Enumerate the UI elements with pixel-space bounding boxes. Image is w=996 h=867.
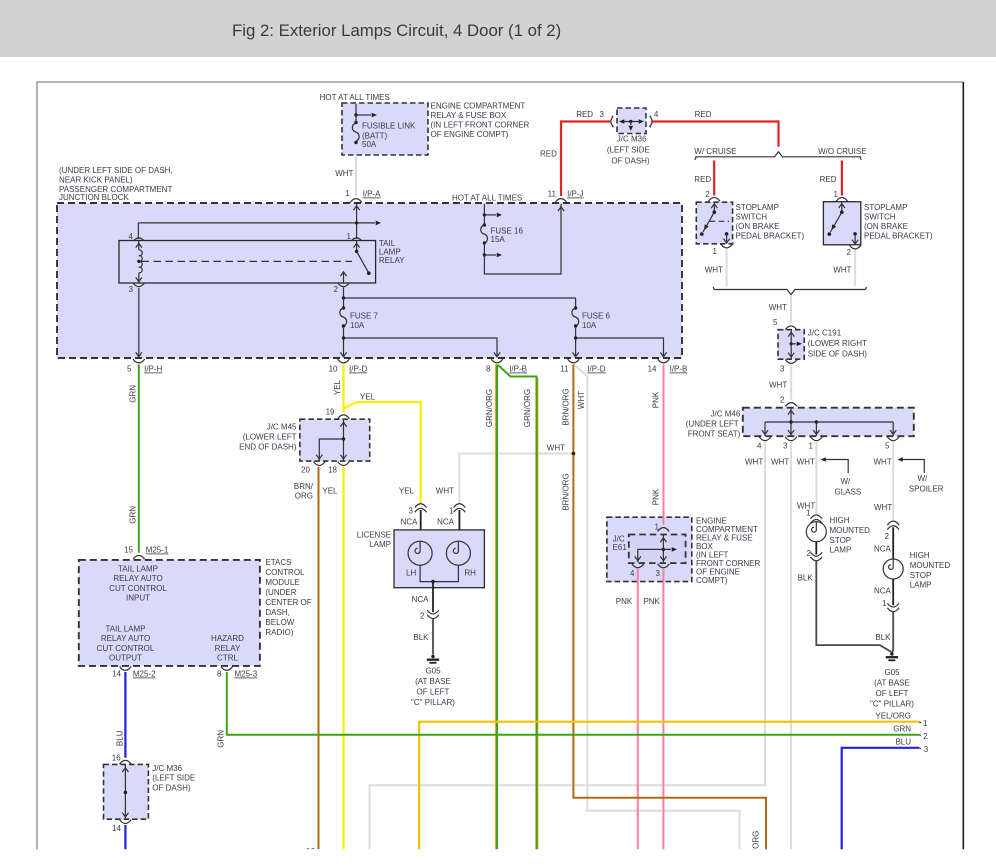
svg-text:1: 1 <box>713 247 718 256</box>
svg-text:RELAY: RELAY <box>379 256 405 265</box>
svg-text:3: 3 <box>409 507 414 516</box>
svg-text:WHT: WHT <box>833 266 851 275</box>
svg-text:RH: RH <box>464 569 476 578</box>
svg-text:INPUT: INPUT <box>126 594 150 603</box>
svg-text:RELAY AUTO: RELAY AUTO <box>101 634 150 643</box>
svg-text:WHT: WHT <box>874 458 892 467</box>
svg-text:WHT: WHT <box>705 266 723 275</box>
svg-text:RADIO): RADIO) <box>265 628 293 637</box>
svg-text:STOP: STOP <box>830 536 852 545</box>
svg-text:4: 4 <box>757 442 762 451</box>
svg-text:8: 8 <box>486 365 491 374</box>
svg-text:18: 18 <box>328 466 337 475</box>
svg-text:BLK: BLK <box>798 574 814 583</box>
wire YEL/ORG net 1 <box>419 712 928 850</box>
wire BRN/ORG M45-20 down <box>318 467 320 849</box>
svg-text:1: 1 <box>882 599 887 608</box>
wire WHT left switch down <box>726 250 728 287</box>
svg-text:WHT: WHT <box>547 444 565 453</box>
svg-text:3: 3 <box>600 110 605 119</box>
svg-text:BLU: BLU <box>115 730 124 746</box>
svg-text:STOPLAMP: STOPLAMP <box>864 203 907 212</box>
wire to I/P-J inside block <box>484 204 561 274</box>
svg-text:JUNCTION BLOCK: JUNCTION BLOCK <box>59 193 129 202</box>
svg-text:PNK: PNK <box>643 597 660 606</box>
svg-text:STOPLAMP: STOPLAMP <box>736 203 779 212</box>
svg-text:I/P-H: I/P-H <box>144 365 162 374</box>
svg-text:3: 3 <box>924 745 929 754</box>
svg-text:M25-2: M25-2 <box>133 670 156 679</box>
svg-text:OF DASH): OF DASH) <box>611 157 650 166</box>
connector 14 I/P-B <box>658 359 670 363</box>
wire YEL I/P-D 10 to J/C M45 <box>342 365 344 413</box>
svg-text:MODULE: MODULE <box>265 578 299 587</box>
svg-text:1: 1 <box>347 232 352 241</box>
wire BLK license to ground <box>432 619 434 655</box>
svg-text:M25-1: M25-1 <box>146 546 169 555</box>
svg-text:10: 10 <box>329 365 338 374</box>
svg-text:(UNDER LEFT: (UNDER LEFT <box>686 420 739 429</box>
wire relay pin3 to I/P-H 5 <box>138 288 140 357</box>
svg-text:(LEFT SIDE: (LEFT SIDE <box>152 774 195 783</box>
svg-text:20: 20 <box>301 466 310 475</box>
wire YEL M45-18 down <box>342 467 344 849</box>
stoplamp switch (w/o cruise) <box>823 202 933 257</box>
passenger compartment junction block box <box>57 203 682 358</box>
wire WHT fusible link to I/P-A <box>355 155 357 196</box>
connector 5 I/P-H <box>133 359 145 363</box>
svg-text:FUSIBLE LINK: FUSIBLE LINK <box>362 122 416 131</box>
wire BLK left stop lamp to ground <box>816 561 891 652</box>
svg-text:TAIL LAMP: TAIL LAMP <box>105 625 145 634</box>
svg-text:"C" PILLAR): "C" PILLAR) <box>411 698 455 707</box>
svg-text:(AT BASE: (AT BASE <box>415 677 451 686</box>
svg-text:5: 5 <box>773 318 778 327</box>
connector 8 I/P-B <box>491 359 503 363</box>
svg-text:W/: W/ <box>841 477 852 486</box>
svg-text:OF ENGINE COMPT): OF ENGINE COMPT) <box>431 130 509 139</box>
svg-text:W/ CRUISE: W/ CRUISE <box>694 147 736 156</box>
svg-text:END OF DASH): END OF DASH) <box>239 443 297 452</box>
svg-text:1: 1 <box>834 190 839 199</box>
wire PNK E61-3 down <box>662 569 664 849</box>
svg-text:NEAR KICK PANEL): NEAR KICK PANEL) <box>59 176 133 185</box>
svg-text:HAZARD: HAZARD <box>211 634 244 643</box>
svg-text:15A: 15A <box>491 235 506 244</box>
svg-text:RED: RED <box>820 175 837 184</box>
wires NCA into license lamp <box>421 510 460 541</box>
svg-text:11: 11 <box>560 365 569 374</box>
net 2 <box>919 734 921 737</box>
high mounted stop lamp (w/ glass) <box>806 509 870 561</box>
svg-text:2: 2 <box>847 248 852 257</box>
wire BLK right stop lamp to ground <box>892 612 893 653</box>
svg-text:YEL: YEL <box>399 487 415 496</box>
wire: battery feed into fusible link <box>355 104 357 121</box>
svg-text:YEL: YEL <box>360 393 376 402</box>
fuse 7 10A <box>340 298 379 330</box>
connector 11 I/P-D <box>568 359 580 363</box>
svg-text:LH: LH <box>406 569 416 578</box>
license lamp assembly <box>357 530 485 588</box>
brace merge to C191 <box>713 287 866 295</box>
svg-text:HOT AT ALL TIMES: HOT AT ALL TIMES <box>452 194 522 203</box>
svg-text:(ON BRAKE: (ON BRAKE <box>736 222 780 231</box>
svg-text:(UNDER LEFT SIDE OF DASH,: (UNDER LEFT SIDE OF DASH, <box>59 166 173 175</box>
svg-text:CUT CONTROL: CUT CONTROL <box>109 584 167 593</box>
wire WHT M46-5 to stop lamp <box>892 442 894 521</box>
svg-text:SIDE OF DASH): SIDE OF DASH) <box>808 350 867 359</box>
svg-text:SPOILER: SPOILER <box>909 485 944 494</box>
svg-text:50A: 50A <box>362 140 377 149</box>
svg-text:MOUNTED: MOUNTED <box>910 561 951 570</box>
wire NCA license out <box>432 582 434 612</box>
junction connector J/C M36 (top) <box>600 108 659 166</box>
svg-text:M25-3: M25-3 <box>235 670 258 679</box>
svg-text:I/P-D: I/P-D <box>587 365 605 374</box>
svg-text:J/C M45: J/C M45 <box>267 423 297 432</box>
svg-text:BRN/ORG: BRN/ORG <box>752 831 761 867</box>
svg-text:2: 2 <box>885 532 890 541</box>
svg-text:NCA: NCA <box>401 518 419 527</box>
svg-text:WHT: WHT <box>874 503 892 512</box>
svg-text:4: 4 <box>654 110 659 119</box>
svg-text:16: 16 <box>306 847 315 856</box>
engine compartment fuse box (fusible link) <box>342 103 428 155</box>
wire PNK stub into E61 <box>662 516 664 525</box>
svg-text:I/P-J: I/P-J <box>567 190 583 199</box>
svg-text:G05: G05 <box>884 668 900 677</box>
svg-text:1: 1 <box>923 719 928 728</box>
svg-text:10A: 10A <box>350 321 365 330</box>
option tag W/ GLASS <box>821 457 862 496</box>
svg-text:2: 2 <box>923 732 928 741</box>
svg-text:W/: W/ <box>918 474 929 483</box>
junction connector J/C M36 (lower) <box>104 764 196 819</box>
svg-text:CTRL: CTRL <box>217 654 238 663</box>
svg-text:RED: RED <box>694 175 711 184</box>
stoplamp switch (w/ cruise) <box>696 202 804 256</box>
junction connector J/C E61 <box>607 516 692 582</box>
svg-text:15: 15 <box>124 546 133 555</box>
svg-text:FUSE 7: FUSE 7 <box>350 312 379 321</box>
svg-text:J/C C191: J/C C191 <box>808 329 842 338</box>
svg-text:NCA: NCA <box>437 518 455 527</box>
svg-text:WHT: WHT <box>769 381 787 390</box>
svg-text:11: 11 <box>548 190 557 199</box>
svg-text:10A: 10A <box>582 321 597 330</box>
wire GRN M25-3 hazard ctrl <box>227 672 919 735</box>
svg-text:ETACS: ETACS <box>265 558 291 567</box>
wires fuse7 to I/P-D 10 and I/P-B 8 <box>344 326 498 357</box>
wire GRN/ORG I/P-B 8 run B <box>498 365 538 849</box>
svg-text:J/C M46: J/C M46 <box>711 410 741 419</box>
svg-text:5: 5 <box>127 365 132 374</box>
svg-text:STOP: STOP <box>910 571 932 580</box>
svg-text:J/C M36: J/C M36 <box>152 764 182 773</box>
wire YEL branch to license lamp <box>344 402 421 504</box>
svg-text:RED: RED <box>695 110 712 119</box>
svg-text:19: 19 <box>326 408 335 417</box>
svg-text:GRN: GRN <box>217 730 226 748</box>
wire GRN I/P-H to ETACS <box>138 365 140 553</box>
wire: I/P-A feed inside block <box>138 204 381 240</box>
svg-text:LAMP: LAMP <box>910 581 932 590</box>
wire GRN/ORG I/P-B 8 run A <box>485 365 497 850</box>
svg-text:PNK: PNK <box>652 391 661 408</box>
svg-text:"C" PILLAR): "C" PILLAR) <box>870 700 914 709</box>
svg-text:TAIL LAMP: TAIL LAMP <box>118 565 158 574</box>
svg-text:HIGH: HIGH <box>910 551 930 560</box>
svg-text:GRN/ORG: GRN/ORG <box>523 389 532 427</box>
wire WHT license feed <box>459 454 573 504</box>
wire BRN/ORG I/P-D 11 <box>573 365 766 850</box>
wire RED M36 to I/P-J <box>561 122 611 197</box>
svg-text:YEL: YEL <box>322 487 338 496</box>
svg-text:2: 2 <box>420 612 425 621</box>
svg-text:SWITCH: SWITCH <box>736 213 768 222</box>
svg-text:BRN/ORG: BRN/ORG <box>562 473 571 510</box>
wire WHT M46-4 long run <box>370 442 766 849</box>
svg-text:WHT: WHT <box>797 458 815 467</box>
svg-text:FRONT SEAT): FRONT SEAT) <box>688 430 741 439</box>
wire BLU below M36 <box>124 825 126 849</box>
svg-text:BRN/ORG: BRN/ORG <box>562 388 571 425</box>
svg-text:GRN/ORG: GRN/ORG <box>485 389 494 427</box>
svg-text:PEDAL BRACKET): PEDAL BRACKET) <box>736 232 805 241</box>
svg-text:OF LEFT: OF LEFT <box>417 688 450 697</box>
svg-text:I/P-B: I/P-B <box>509 365 527 374</box>
svg-text:PEDAL BRACKET): PEDAL BRACKET) <box>864 232 933 241</box>
header bar <box>0 0 996 57</box>
wire PNK I/P-B 14 to E61 <box>663 365 665 525</box>
svg-text:(UNDER: (UNDER <box>265 588 296 597</box>
wire PNK E61-4 down <box>637 569 639 849</box>
svg-text:(LOWER LEFT: (LOWER LEFT <box>243 433 297 442</box>
svg-text:3: 3 <box>783 442 788 451</box>
wire WHT M46-3 long run <box>790 442 792 849</box>
svg-text:14: 14 <box>112 670 121 679</box>
svg-text:4: 4 <box>630 569 635 578</box>
svg-text:CENTER OF: CENTER OF <box>265 598 311 607</box>
svg-text:Fig 2: Exterior Lamps Circuit,: Fig 2: Exterior Lamps Circuit, 4 Door (1… <box>232 21 561 40</box>
svg-text:RELAY & FUSE BOX: RELAY & FUSE BOX <box>431 111 507 120</box>
svg-text:OF DASH): OF DASH) <box>152 783 191 792</box>
svg-text:CUT CONTROL: CUT CONTROL <box>97 644 155 653</box>
wire BLU net 3 <box>842 738 929 850</box>
svg-text:I/P-B: I/P-B <box>670 365 688 374</box>
svg-text:BLK: BLK <box>413 633 429 642</box>
svg-text:WHT: WHT <box>769 303 787 312</box>
svg-text:2: 2 <box>334 285 339 294</box>
ground G05 (stop lamps) <box>886 652 898 660</box>
svg-text:COMPT): COMPT) <box>696 576 728 585</box>
svg-text:GLASS: GLASS <box>835 488 862 497</box>
svg-text:4: 4 <box>129 232 134 241</box>
svg-text:1: 1 <box>345 189 350 198</box>
svg-text:NCA: NCA <box>412 595 430 604</box>
svg-text:RELAY AUTO: RELAY AUTO <box>113 574 162 583</box>
svg-text:5: 5 <box>885 442 890 451</box>
svg-text:HOT AT ALL TIMES: HOT AT ALL TIMES <box>320 93 390 102</box>
svg-text:16: 16 <box>112 754 121 763</box>
svg-text:14: 14 <box>112 824 121 833</box>
svg-text:J/C M36: J/C M36 <box>617 135 647 144</box>
svg-text:G05: G05 <box>425 667 441 676</box>
svg-text:YEL/ORG: YEL/ORG <box>875 712 911 721</box>
node + branch arrow <box>354 113 357 116</box>
svg-text:YEL: YEL <box>333 379 342 395</box>
svg-text:I/P-D: I/P-D <box>349 365 367 374</box>
svg-text:WHT: WHT <box>745 458 763 467</box>
junction connector J/C C191 <box>778 329 867 360</box>
svg-text:ENGINE COMPARTMENT: ENGINE COMPARTMENT <box>431 102 526 111</box>
high mounted stop lamp (w/ spoiler) <box>874 521 950 611</box>
svg-text:WHT: WHT <box>577 391 586 409</box>
ETACS control module box <box>79 560 260 666</box>
svg-text:FUSE 6: FUSE 6 <box>582 312 611 321</box>
wire BLU M25-2 to J/C M36 <box>124 672 126 758</box>
svg-text:LAMP: LAMP <box>830 546 852 555</box>
junction connector J/C M46 <box>686 408 914 439</box>
svg-text:1: 1 <box>809 442 814 451</box>
svg-text:(IN LEFT FRONT CORNER: (IN LEFT FRONT CORNER <box>431 121 530 130</box>
svg-text:BLK: BLK <box>875 633 891 642</box>
svg-text:GRN: GRN <box>893 725 911 734</box>
svg-text:BELOW: BELOW <box>265 618 294 627</box>
svg-text:NCA: NCA <box>874 587 892 596</box>
svg-text:E61: E61 <box>613 543 628 552</box>
connector 10 I/P-D <box>338 359 350 363</box>
svg-text:OF LEFT: OF LEFT <box>876 689 909 698</box>
svg-text:WHT: WHT <box>771 458 789 467</box>
svg-text:WHT: WHT <box>335 169 353 178</box>
svg-text:WHT: WHT <box>436 487 454 496</box>
junction connector J/C M45 <box>239 419 370 461</box>
svg-text:LICENSE: LICENSE <box>357 531 391 540</box>
svg-text:(ON BRAKE: (ON BRAKE <box>864 222 908 231</box>
svg-text:2: 2 <box>780 396 785 405</box>
svg-text:GRN: GRN <box>129 506 138 524</box>
svg-text:SWITCH: SWITCH <box>864 213 896 222</box>
svg-text:BRN/: BRN/ <box>294 482 314 491</box>
svg-text:MOUNTED: MOUNTED <box>830 526 871 535</box>
connector 8 M25-3 <box>221 667 233 671</box>
wire WHT right switch down <box>854 250 856 287</box>
svg-text:OUTPUT: OUTPUT <box>109 654 142 663</box>
svg-text:3: 3 <box>780 365 785 374</box>
svg-text:14: 14 <box>648 365 657 374</box>
svg-text:RED: RED <box>540 150 557 159</box>
brace W/CRUISE - W/O CRUISE <box>695 152 862 160</box>
svg-text:ORG: ORG <box>295 492 313 501</box>
svg-text:W/O CRUISE: W/O CRUISE <box>818 147 866 156</box>
svg-text:HIGH: HIGH <box>830 516 850 525</box>
svg-text:3: 3 <box>656 569 661 578</box>
tail lamp relay <box>119 232 405 294</box>
wire WHT C191 to M46 <box>790 365 792 401</box>
fuse 6 10A <box>572 298 611 330</box>
svg-text:8: 8 <box>217 670 222 679</box>
svg-text:PNK: PNK <box>616 597 633 606</box>
svg-text:CONTROL: CONTROL <box>265 568 305 577</box>
connector 14 M25-2 <box>120 667 132 671</box>
svg-text:RELAY: RELAY <box>215 644 241 653</box>
wire RED w/o cruise branch <box>841 161 843 196</box>
svg-text:1: 1 <box>449 507 454 516</box>
svg-text:I/P-A: I/P-A <box>363 190 381 199</box>
wire RED M36 to brake switches <box>651 122 779 147</box>
svg-text:PNK: PNK <box>652 488 661 505</box>
svg-text:LAMP: LAMP <box>369 540 391 549</box>
svg-text:3: 3 <box>129 285 134 294</box>
fusible link FL (BATT) 50A <box>354 121 357 124</box>
fuse 16 15A <box>481 204 564 274</box>
svg-text:(AT BASE: (AT BASE <box>874 679 910 688</box>
svg-text:DASH,: DASH, <box>265 608 289 617</box>
svg-text:NCA: NCA <box>874 545 892 554</box>
ground G05 (license) <box>427 655 439 663</box>
svg-text:GRN: GRN <box>129 385 138 403</box>
svg-text:1: 1 <box>806 509 811 518</box>
wire WHT brace to C191 pin5 <box>790 295 792 324</box>
svg-text:(LOWER RIGHT: (LOWER RIGHT <box>808 339 867 348</box>
option tag W/ SPOILER <box>898 457 944 493</box>
wires fuse6 to I/P-D 11 and I/P-B 14 <box>576 326 664 357</box>
wire RED w/cruise branch <box>713 161 715 196</box>
wire WHT I/P-D 11 <box>575 365 740 849</box>
svg-text:(LEFT SIDE: (LEFT SIDE <box>607 146 650 155</box>
wire relay pin2 to fuses <box>344 288 576 299</box>
svg-text:BLU: BLU <box>895 738 911 747</box>
svg-text:2: 2 <box>705 190 710 199</box>
wire WHT M46-1 to stop lamp <box>815 442 817 515</box>
svg-text:RED: RED <box>576 110 593 119</box>
